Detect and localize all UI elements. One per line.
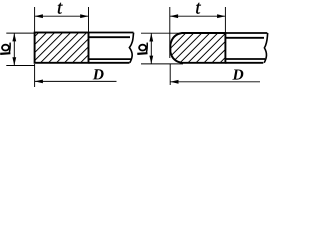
D label xyxy=(232,69,243,79)
b label xyxy=(137,43,147,54)
t dimension extension lines xyxy=(35,7,89,32)
D dimension extension line xyxy=(169,64,171,85)
t right arrowhead xyxy=(217,14,225,18)
b label xyxy=(0,43,10,54)
t dimension line xyxy=(35,15,89,17)
break line xyxy=(264,33,268,63)
D arrowhead xyxy=(35,80,43,84)
D dimension extension line xyxy=(34,64,36,87)
t right arrowhead xyxy=(80,14,88,18)
b dimension line xyxy=(150,33,152,64)
b top arrowhead xyxy=(149,33,153,41)
t dimension extension lines xyxy=(170,7,226,58)
b dimension line xyxy=(13,33,15,65)
t left arrowhead xyxy=(170,14,178,18)
D label xyxy=(93,69,104,79)
b bottom arrowhead xyxy=(149,56,153,64)
b dimension extension lines xyxy=(141,33,183,64)
b top arrowhead xyxy=(12,33,16,41)
b bottom arrowhead xyxy=(12,57,16,65)
key section (hatched capsule) xyxy=(170,33,225,63)
D dimension line xyxy=(35,80,117,82)
key section (hatched rectangle) xyxy=(35,33,89,63)
b dimension extension lines xyxy=(6,33,34,65)
D arrowhead xyxy=(170,80,178,84)
break line xyxy=(129,33,133,63)
shaft tail outline xyxy=(89,33,134,63)
t dimension line xyxy=(170,15,226,17)
D dimension line xyxy=(170,81,260,83)
t label xyxy=(196,3,201,14)
t left arrowhead xyxy=(35,14,43,18)
shaft tail outline xyxy=(225,33,267,63)
t label xyxy=(58,3,63,14)
